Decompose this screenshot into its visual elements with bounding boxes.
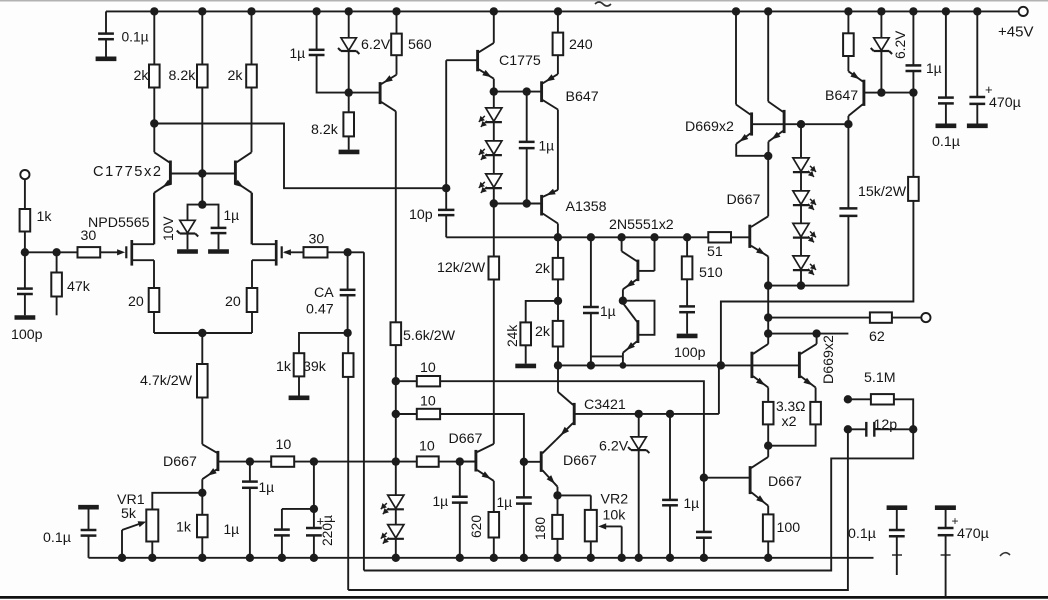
transistor Q6 C1775	[446, 11, 494, 91]
svg-text:4.7k/2W: 4.7k/2W	[140, 373, 193, 389]
label 100p vas	[674, 345, 706, 361]
junction ground rail	[148, 554, 156, 562]
label 5.6k/2W	[403, 328, 456, 344]
resistor 30 input	[78, 247, 101, 257]
svg-text:240: 240	[569, 37, 593, 53]
label 180	[533, 517, 548, 540]
junction A1358 base node	[490, 199, 498, 207]
resistor 3.3R a	[763, 402, 774, 425]
label 3.3R	[776, 399, 806, 414]
resistor 2k first	[149, 65, 160, 88]
JFET Q4 NPD5565 right	[252, 193, 291, 288]
junction base lower	[700, 474, 708, 482]
svg-text:1k: 1k	[37, 209, 53, 225]
junction ground rail	[246, 554, 254, 562]
label D669x2 lower	[821, 335, 837, 384]
ground 470u ps-top	[967, 124, 988, 129]
junction on +45V rail	[942, 7, 950, 15]
transistor Q7 B647	[542, 55, 558, 190]
label 24k	[505, 325, 520, 347]
wire 510 leads	[686, 237, 688, 305]
label 0.1u ps-bot	[848, 526, 876, 542]
transistor Q9 2N5551	[622, 237, 655, 300]
capacitor 1u rail	[309, 50, 325, 55]
wire 3.3 bottoms	[768, 424, 815, 445]
wire input node	[25, 232, 78, 253]
wire 39k leads	[347, 333, 349, 590]
capacitor 220u	[306, 514, 324, 536]
svg-text:51: 51	[707, 244, 723, 260]
wire coll line	[768, 333, 848, 335]
wire feedback line B	[348, 429, 848, 590]
svg-text:100p: 100p	[674, 345, 706, 361]
transistor Q18 C3421	[556, 403, 719, 440]
svg-text:1µ: 1µ	[497, 495, 513, 510]
junction 2k3 bottom	[554, 297, 562, 305]
junction on +45V rail	[345, 7, 353, 15]
transistor Q11 D667 upper	[750, 156, 768, 286]
resistor 2k second	[246, 65, 257, 88]
svg-text:10V: 10V	[161, 216, 176, 241]
wire led4 top	[800, 124, 802, 158]
wire 12k col	[493, 204, 495, 444]
capacitor 0.1u ps-top	[938, 11, 954, 123]
label 0.1u	[122, 30, 149, 45]
svg-text:12p: 12p	[874, 417, 898, 433]
resistor 10 base	[271, 456, 294, 466]
svg-text:47k: 47k	[67, 279, 91, 295]
svg-text:1µ: 1µ	[926, 61, 942, 76]
label 10p	[409, 207, 433, 223]
junction 47k node	[52, 248, 60, 256]
wire vr2 top link	[558, 495, 591, 510]
ground 100p input	[15, 315, 36, 320]
wire D669 lower bases	[721, 364, 798, 366]
junction Q9 emitter	[619, 297, 627, 305]
wire feedback line A	[364, 429, 913, 570]
label 39k	[303, 359, 327, 375]
svg-text:VR2: VR2	[601, 492, 629, 508]
label NPD5565	[88, 215, 150, 231]
wire 10b leads	[396, 414, 524, 462]
capacitor 0.1u ps-bot	[887, 508, 908, 575]
capacitor 1u vas	[583, 237, 599, 365]
ground 0.1u ps-top	[936, 124, 957, 129]
wire 1k-2 leads	[201, 493, 203, 558]
potentiometer VR1 5k	[122, 510, 158, 542]
junction on +45V rail	[973, 7, 981, 15]
svg-text:0.1µ: 0.1µ	[848, 526, 876, 542]
junction ground rail	[310, 554, 318, 562]
terminal +45V	[1019, 7, 1028, 16]
label 8.2k	[169, 68, 197, 84]
junction fb gate node	[343, 248, 351, 256]
capacitor 1u bypass-b	[274, 530, 290, 536]
label 2k second	[228, 68, 244, 84]
ground zener 10V	[177, 249, 198, 254]
label C1775 single	[499, 53, 541, 69]
svg-text:560: 560	[408, 37, 432, 53]
wire 2k-3 leads	[557, 237, 559, 301]
ground 8.2k second	[339, 150, 360, 155]
junction 10p node	[442, 184, 450, 192]
svg-text:NPD5565: NPD5565	[88, 215, 150, 231]
svg-text:1µ: 1µ	[600, 304, 616, 319]
label 5k	[121, 506, 137, 522]
wire 24k branch	[526, 301, 558, 364]
svg-text:620: 620	[469, 515, 484, 538]
svg-text:10p: 10p	[409, 207, 433, 223]
resistor 4.7k/2W	[197, 364, 208, 398]
svg-text:2k: 2k	[228, 68, 244, 84]
junction ground rail	[490, 554, 498, 562]
svg-text:8.2k: 8.2k	[311, 122, 339, 138]
capacitor 470u ps-top	[969, 11, 992, 123]
label D667 lower	[768, 474, 802, 490]
junction on +45V rail	[844, 7, 852, 15]
label 1u rail	[290, 46, 306, 61]
capacitor 1u cs	[906, 65, 922, 71]
wire C3421 base up	[718, 365, 720, 414]
junction on +45V rail	[392, 7, 400, 15]
capacitor 1u lower-b	[696, 478, 712, 558]
svg-text:10: 10	[419, 439, 435, 455]
wire 47k leads	[56, 252, 58, 315]
resistor 1k fb	[294, 353, 305, 376]
junction bias 365 c	[717, 361, 725, 369]
svg-text:x2: x2	[782, 414, 797, 430]
svg-text:C1775x2: C1775x2	[93, 164, 163, 180]
junction VAS d	[650, 233, 658, 241]
capacitor 1u mid-b	[662, 414, 678, 558]
junction cap mid-b top	[666, 410, 674, 418]
junction out coll	[764, 329, 772, 337]
svg-text:CA: CA	[314, 285, 334, 301]
label 2k fourth	[535, 324, 551, 340]
wire C1775 left collector net	[154, 124, 446, 189]
junction ground rail	[392, 554, 400, 562]
junction ground rail	[764, 554, 772, 562]
junction out 62	[764, 313, 772, 321]
label 1u vas	[600, 304, 616, 319]
scan mark top	[595, 2, 611, 6]
label 6.2V second	[893, 30, 908, 59]
svg-text:8.2k: 8.2k	[169, 68, 197, 84]
LED D6	[793, 158, 816, 177]
label 12p	[874, 417, 898, 433]
svg-text:1k: 1k	[276, 359, 292, 375]
label 2k third	[535, 261, 551, 277]
label 1u bias	[224, 208, 240, 223]
svg-text:30: 30	[309, 232, 325, 248]
wire 220u top lead	[313, 462, 315, 528]
label 100	[777, 520, 801, 536]
resistor 5.6k/2W	[391, 322, 402, 345]
wire fb gate node	[328, 251, 364, 253]
wire 15k leads	[721, 93, 914, 366]
resistor 620	[489, 512, 500, 538]
svg-text:2k: 2k	[134, 68, 150, 84]
label 1k fb	[276, 359, 292, 375]
wire 20 right lead	[251, 312, 253, 333]
label 1u interstage	[539, 139, 555, 154]
svg-text:10: 10	[420, 360, 436, 376]
label 30 fb	[309, 232, 325, 248]
wire ground rail	[89, 557, 874, 559]
resistor 47k	[51, 273, 62, 297]
svg-text:6.2V: 6.2V	[893, 30, 908, 59]
junction on +45V rail	[877, 7, 885, 15]
svg-text:A1358: A1358	[566, 199, 607, 215]
label D667 upper	[727, 192, 761, 208]
wire +45V rail	[106, 10, 1019, 12]
wire D669 bases	[753, 123, 849, 125]
junction coll 2	[812, 329, 820, 337]
label VR1	[117, 492, 145, 508]
svg-text:2N5551x2: 2N5551x2	[609, 217, 674, 233]
svg-text:1µ: 1µ	[290, 46, 306, 61]
wire LED to rail	[395, 509, 397, 558]
wire bypass link	[282, 509, 314, 558]
LED D9	[793, 256, 816, 275]
resistor 560	[391, 34, 402, 56]
resistor 20 right	[247, 288, 258, 312]
label 0.1u rail-left	[43, 530, 71, 546]
wire 240 top	[557, 11, 559, 32]
svg-text:510: 510	[699, 265, 723, 281]
svg-text:B647: B647	[825, 88, 858, 104]
wire C3421 coll	[558, 365, 573, 405]
label 10k	[603, 508, 627, 524]
transistor Q1 C1775 left	[154, 124, 201, 245]
zener 6.2V first	[338, 38, 359, 54]
label B647 cs	[825, 88, 858, 104]
label 51	[707, 244, 723, 260]
label B647	[566, 89, 599, 105]
top scan border	[0, 0, 1048, 2]
wire gate right jfet	[285, 251, 304, 253]
svg-text:0.1µ: 0.1µ	[43, 530, 71, 546]
capacitor 1u mid-c	[452, 462, 468, 558]
svg-text:B647: B647	[566, 89, 599, 105]
wire 0.1u drop	[105, 11, 107, 56]
ground 0.1u top-left	[96, 56, 117, 61]
junction vr2 node	[553, 491, 561, 499]
junction 3.3 node	[764, 442, 772, 450]
LED D5	[479, 174, 502, 193]
wire 62 line	[768, 317, 921, 319]
potentiometer VR2 10k	[585, 510, 622, 558]
ground cap 1u bias	[208, 249, 229, 254]
wire vbe line	[768, 285, 848, 287]
junction bias node	[198, 200, 206, 208]
junction ground rail	[118, 554, 126, 562]
capacitor 0.1u top-left	[98, 34, 114, 40]
resistor 30 fb	[304, 247, 328, 257]
resistor 8.2k second	[343, 112, 354, 136]
label 510	[699, 265, 723, 281]
capacitor 1u bias	[211, 228, 227, 233]
svg-text:D667: D667	[727, 192, 761, 208]
ground 100p vas	[677, 334, 698, 339]
wire A1358 base	[494, 203, 541, 205]
label 2k	[134, 68, 150, 84]
svg-text:1k: 1k	[176, 520, 192, 536]
resistor 10 b	[417, 409, 440, 419]
svg-text:1µ: 1µ	[684, 496, 700, 511]
junction ground rail	[700, 554, 708, 562]
resistor 240	[553, 33, 564, 56]
resistor 12k/2W	[489, 257, 500, 280]
resistor 20 left	[149, 288, 160, 312]
LED D8	[793, 223, 816, 242]
wire CA leads	[347, 252, 349, 333]
svg-text:D667: D667	[163, 454, 197, 470]
resistor 8.2k	[197, 65, 208, 88]
label 1u mid-c	[433, 494, 449, 509]
transistor Q5 PNP 560	[380, 55, 396, 322]
wire cap 1u-a leads	[249, 462, 251, 558]
resistor 510	[682, 256, 693, 279]
junction 1u-3 bottom	[523, 199, 531, 207]
ground 1k fb	[289, 395, 310, 400]
label 1u cs	[926, 61, 942, 76]
svg-text:1µ: 1µ	[433, 494, 449, 509]
label A1358	[566, 199, 607, 215]
resistor 5.1M	[871, 394, 894, 404]
JFET Q3 NPD5565 left	[117, 193, 154, 288]
svg-text:10: 10	[420, 394, 436, 410]
wire 220u bottom	[313, 535, 315, 557]
junction ground rail	[520, 554, 528, 562]
wire led chain top	[493, 92, 495, 108]
label 1u mid-a	[497, 495, 513, 510]
junction on +45V rail	[247, 7, 255, 15]
label 62	[869, 329, 885, 345]
label 47k	[67, 279, 91, 295]
svg-text:6.2V: 6.2V	[599, 439, 629, 455]
transistor Q17 D667 lower	[704, 446, 768, 515]
junction vbe a	[764, 281, 772, 289]
transistor Q15 D669 lower-1	[752, 344, 768, 402]
junction VAS c	[617, 233, 625, 241]
capacitor 100p vas	[679, 306, 695, 312]
label 1u mid-b	[684, 496, 700, 511]
svg-text:2k: 2k	[535, 324, 551, 340]
junction D667 emitter node	[198, 489, 206, 497]
junction on +45V rail	[764, 7, 772, 15]
capacitor 100p input	[17, 289, 33, 294]
junction z3 top	[635, 410, 643, 418]
label 15k/2W	[858, 184, 907, 200]
wire input to 1k	[24, 179, 26, 209]
wire C1775 base drop	[445, 60, 447, 188]
zener 6.2V second	[871, 38, 892, 54]
resistor 2k third	[553, 258, 564, 280]
junction ground rail	[666, 554, 674, 562]
wire 30 to gate	[100, 251, 118, 253]
label 470u ps-bot	[957, 526, 989, 542]
wire 5.1M leads	[848, 399, 913, 429]
label 10 a	[420, 360, 436, 376]
junction vbe b	[797, 281, 805, 289]
junction VAS emitter node	[490, 87, 498, 95]
svg-text:1µ: 1µ	[224, 522, 240, 537]
svg-text:10: 10	[276, 437, 292, 453]
junction ground rail	[456, 554, 464, 562]
wire fb line down	[363, 252, 365, 570]
junction on +45V rail	[909, 7, 917, 15]
wire led chain gaps	[493, 122, 495, 204]
transistor Q16 D669 lower-2	[799, 334, 816, 402]
transistor Q20 D667 second	[461, 444, 494, 512]
label 0.47	[306, 302, 334, 318]
svg-text:D667: D667	[768, 474, 802, 490]
resistor 51	[708, 232, 731, 242]
wire 8.2k-2 leads	[348, 93, 350, 150]
transistor Q12 D669 upper-1	[736, 11, 768, 155]
wire zener3 lead	[638, 414, 640, 558]
junction ground rail	[635, 554, 643, 562]
label 4.7k/2W	[140, 373, 193, 389]
LED D7	[793, 191, 816, 210]
svg-text:5k: 5k	[121, 506, 137, 522]
wire 1u-cs leads	[881, 11, 913, 92]
label x2	[782, 414, 797, 430]
label CA	[314, 285, 334, 301]
junction on +45V rail	[312, 7, 320, 15]
wire bias line 365	[558, 364, 721, 366]
label D669x2 upper	[685, 119, 734, 135]
wire cs resistor top	[847, 11, 849, 33]
junction LED top	[797, 120, 805, 128]
label 1u bypass-b	[224, 522, 240, 537]
label 10 base	[276, 437, 292, 453]
svg-text:2k: 2k	[535, 261, 551, 277]
junction on +45V rail	[554, 7, 562, 15]
resistor 62	[870, 312, 892, 322]
label 10V	[161, 216, 176, 241]
svg-text:100p: 100p	[11, 327, 43, 343]
wire 2k-4 leads	[557, 301, 559, 366]
label VR2	[601, 492, 629, 508]
junction left collector	[150, 119, 158, 127]
resistor 39k	[343, 353, 354, 377]
capacitor 1u mid-a	[516, 462, 532, 558]
wire led4 gaps	[800, 172, 802, 286]
label 220u	[320, 515, 335, 546]
junction ground rail	[553, 554, 561, 562]
capacitor 10p	[438, 188, 454, 237]
junction fbnet b	[844, 425, 852, 433]
svg-text:62: 62	[869, 329, 885, 345]
svg-text:C3421: C3421	[584, 397, 626, 413]
junction tail node	[198, 329, 206, 337]
label 240	[569, 37, 593, 53]
terminal input	[20, 170, 29, 179]
wire 10a leads	[396, 381, 704, 478]
wire base row to right	[314, 461, 396, 463]
label 470u ps-top	[989, 95, 1021, 111]
wire 1u-2 leads	[317, 11, 349, 92]
capacitor 12p	[848, 422, 913, 437]
svg-text:3.3Ω: 3.3Ω	[776, 399, 806, 414]
svg-text:470µ: 470µ	[957, 526, 989, 542]
junction 1u-3 top	[523, 87, 531, 95]
svg-text:12k/2W: 12k/2W	[437, 260, 486, 276]
junction VAS b	[587, 233, 595, 241]
svg-text:10k: 10k	[603, 508, 627, 524]
